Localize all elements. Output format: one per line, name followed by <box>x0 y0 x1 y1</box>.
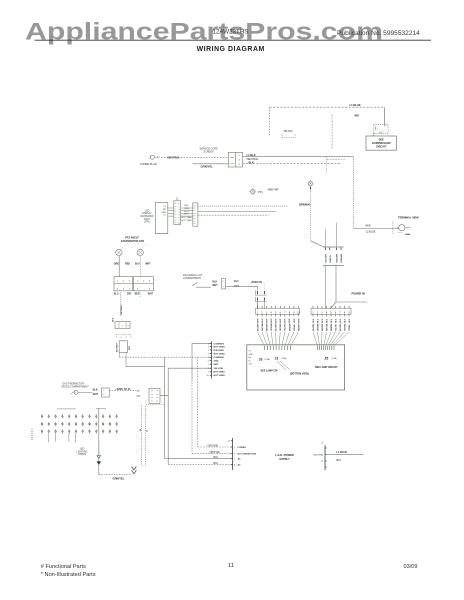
wire fan1 drop <box>118 256 120 277</box>
svg-text:1: 1 <box>208 343 209 345</box>
svg-text:11: 11 <box>228 563 234 569</box>
svg-text:VIO/BK: VIO/BK <box>349 324 351 331</box>
svg-text:GND: GND <box>214 361 219 363</box>
bracket dashed <box>117 334 131 339</box>
svg-text:KEYBOARD: KEYBOARD <box>141 215 154 218</box>
svg-text:+5VDC IN: +5VDC IN <box>250 281 262 284</box>
label NEUTRAL <box>247 157 260 161</box>
label GRN-YEL ground2 <box>113 477 125 481</box>
label +5VDC IN <box>250 281 262 284</box>
svg-text:RED: RED <box>129 345 131 350</box>
svg-text:BRN/BK: BRN/BK <box>331 323 333 331</box>
svg-text:BLU/BK: BLU/BK <box>340 323 342 331</box>
svg-text:3: 3 <box>178 209 179 211</box>
wire J4 drop 1 <box>141 406 143 466</box>
svg-text:EVAPORATOR FAN: EVAPORATOR FAN <box>121 240 144 243</box>
svg-text:6: 6 <box>129 288 131 290</box>
svg-text:(15A): (15A) <box>332 357 338 360</box>
fan motor M2 <box>137 249 143 255</box>
svg-text:BLK/WHT: BLK/WHT <box>117 342 119 352</box>
fan connector CN-B <box>133 277 153 291</box>
svg-text:A3: A3 <box>238 463 242 466</box>
footer non-illustrated parts <box>41 572 96 578</box>
label J3 <box>259 357 271 361</box>
LED supply input connector <box>228 438 236 470</box>
wire neutral dashed to right <box>243 163 341 165</box>
wire compressor return dashed <box>331 115 333 150</box>
svg-text:L1 BLUE: L1 BLUE <box>350 103 361 107</box>
svg-text:# Functional Parts: # Functional Parts <box>41 564 86 570</box>
svg-text:BLK: BLK <box>214 462 219 465</box>
svg-text:BLK: BLK <box>249 161 254 165</box>
connector CN-C <box>113 317 131 328</box>
svg-text:BLU: BLU <box>214 456 219 459</box>
svg-text:LED: LED <box>80 449 85 451</box>
svg-text:BLU: BLU <box>135 263 140 266</box>
svg-text:NOT USED: NOT USED <box>214 372 226 374</box>
svg-text:J2: J2 <box>176 199 179 201</box>
svg-text:WHT: WHT <box>294 318 296 323</box>
svg-text:1: 1 <box>122 326 124 328</box>
led supply pin functions <box>238 447 257 466</box>
svg-text:3: 3 <box>208 350 209 352</box>
svg-text:WHT: WHT <box>148 293 154 295</box>
wire J4 to blk riser <box>160 394 168 396</box>
svg-text:L.E.D. POWER: L.E.D. POWER <box>275 453 294 457</box>
board left tiny rows <box>248 351 253 366</box>
overload relay OL connector <box>374 124 388 133</box>
LED strip grid right <box>82 414 118 433</box>
svg-text:BAL: BAL <box>137 394 142 397</box>
wire to defrost thermostat <box>353 228 398 230</box>
svg-text:VL: VL <box>163 215 166 217</box>
label L1 BLUE out <box>337 451 348 454</box>
svg-text:NOT USED: NOT USED <box>214 346 226 348</box>
fan defrost connector 4pin <box>323 247 344 266</box>
svg-text:BLU/WH: BLU/WH <box>276 323 278 331</box>
LCD display box U1 <box>155 203 168 234</box>
svg-text:GRN/YEL: GRN/YEL <box>201 165 214 169</box>
svg-text:RED/BK: RED/BK <box>322 323 324 331</box>
left edge marks <box>31 429 33 440</box>
svg-text:NOT USED: NOT USED <box>214 353 226 355</box>
wire L1 top horizontal <box>270 106 385 108</box>
svg-text:1: 1 <box>178 204 179 206</box>
svg-text:3: 3 <box>239 164 241 166</box>
title WIRING DIAGRAM <box>197 46 265 53</box>
wire L1 from box to right riser <box>243 156 354 158</box>
label GRN-YEL ground <box>201 165 214 169</box>
svg-text:4: 4 <box>137 288 139 290</box>
label +5VDC <box>115 388 131 391</box>
svg-text:VIO/WH: VIO/WH <box>294 323 296 331</box>
svg-text:LIGHTING: LIGHTING <box>77 451 88 453</box>
wire box right to riser <box>126 353 165 367</box>
svg-text:VL: VL <box>248 360 251 362</box>
fan-in wires J1 <box>258 332 299 346</box>
wire led pwr pin4 <box>168 463 231 465</box>
wire solid mid <box>168 367 211 369</box>
svg-text:L2 BLUE: L2 BLUE <box>366 231 376 234</box>
svg-text:1: 1 <box>117 281 119 283</box>
led grid top rail <box>57 408 106 410</box>
led column stubs <box>49 434 76 443</box>
svg-text:(15A): (15A) <box>265 358 271 361</box>
svg-text:WHT: WHT <box>289 318 291 323</box>
svg-text:2: 2 <box>143 281 145 283</box>
ice 2pin connector bracket2 <box>255 297 266 302</box>
wire L1 drop to overload <box>384 107 386 124</box>
svg-text:BLU: BLU <box>114 293 119 295</box>
defrost thermostat DT <box>393 215 419 234</box>
main board box <box>247 345 345 390</box>
wire L1 riser left dashed <box>269 107 271 135</box>
wire led pwr pin2 <box>192 452 232 454</box>
fan-in wires J5 <box>313 332 349 346</box>
svg-text:BLK: BLK <box>212 281 217 283</box>
label lamp circuit <box>261 369 278 372</box>
svg-text:BLU: BLU <box>184 211 189 213</box>
svg-text:SEE LAMP CIR: SEE LAMP CIR <box>261 369 278 372</box>
svg-text:NO CONNECTION: NO CONNECTION <box>238 453 257 455</box>
wire ice +5vdc <box>226 285 258 287</box>
wire lamp diagonal to connector <box>311 241 324 247</box>
label LED LIGHTING STRIPS <box>77 449 88 457</box>
svg-text:WHT: WHT <box>271 318 273 323</box>
svg-text:GRY/WH: GRY/WH <box>280 323 282 331</box>
svg-text:BLK: BLK <box>335 318 337 323</box>
wire led strip ground riser <box>98 440 100 456</box>
svg-text:RED: RED <box>366 224 371 227</box>
svg-text:BLK: BLK <box>322 318 324 323</box>
wire plug to service cord box <box>161 156 228 158</box>
svg-text:GROUND: GROUND <box>208 444 219 447</box>
labels neutral l1 <box>313 454 324 463</box>
svg-text:TX: TX <box>163 206 166 208</box>
ice connector <box>222 279 226 289</box>
svg-text:GRN: GRN <box>184 208 189 210</box>
svg-text:1: 1 <box>121 337 123 339</box>
svg-text:RED: RED <box>184 205 189 207</box>
svg-text:BLK: BLK <box>349 318 351 323</box>
label bottom view <box>290 373 309 376</box>
svg-text:WHT: WHT <box>184 214 189 216</box>
labels red wht <box>234 281 240 288</box>
ribbon wire 2 <box>198 211 276 213</box>
publication number text <box>337 30 420 37</box>
svg-text:ORG/BK: ORG/BK <box>317 323 319 331</box>
svg-text:7: 7 <box>208 364 209 366</box>
svg-text:AppliancePartsPros.com: AppliancePartsPros.com <box>25 18 383 45</box>
label ICE MAKER <box>183 274 203 280</box>
plug P1 3-wire plug symbol <box>149 155 159 159</box>
label BRN-WH <box>299 204 310 207</box>
connector J2 label <box>176 199 179 201</box>
connector J2 box <box>174 201 181 225</box>
svg-text:J2: J2 <box>321 443 324 445</box>
svg-text:3: 3 <box>234 459 236 461</box>
label J5 <box>324 356 337 360</box>
svg-text:BLK/WH: BLK/WH <box>326 254 328 263</box>
svg-text:4: 4 <box>117 288 119 290</box>
svg-text:6: 6 <box>178 217 179 219</box>
LED strip grid left <box>41 414 77 433</box>
thermistor connector <box>101 388 109 397</box>
wire riser blk <box>167 368 169 464</box>
svg-text:COMMON: COMMON <box>214 357 225 359</box>
label L1 BLUE top <box>350 103 361 107</box>
svg-text:GRN/YL: GRN/YL <box>330 254 332 263</box>
wire riser blu <box>164 357 166 458</box>
svg-text:BLK: BLK <box>313 318 315 323</box>
label pin1 wire <box>208 444 219 447</box>
svg-text:1: 1 <box>239 155 241 157</box>
svg-text:WHT: WHT <box>298 318 300 323</box>
svg-text:WIRING DIAGRAM: WIRING DIAGRAM <box>197 46 265 53</box>
wire riser V1 <box>197 357 199 447</box>
label NEUTRAL at plug <box>168 155 181 159</box>
svg-text:3: 3 <box>129 281 131 283</box>
label J4 BAL <box>137 391 142 397</box>
svg-text:NEUTRAL: NEUTRAL <box>247 157 260 161</box>
wire L1 branch riser down <box>352 157 354 229</box>
svg-text:CIRCUIT: CIRCUIT <box>376 144 387 148</box>
svg-text:RED/WH: RED/WH <box>267 323 269 331</box>
label BLK <box>249 161 254 165</box>
led feed riser <box>98 409 100 456</box>
svg-text:WHT: WHT <box>214 364 220 366</box>
svg-text:J1: J1 <box>275 356 279 360</box>
svg-text:6: 6 <box>149 288 151 290</box>
svg-text:SUPPLY: SUPPLY <box>279 457 290 461</box>
svg-text:2: 2 <box>178 206 179 208</box>
svg-text:8: 8 <box>178 223 179 225</box>
svg-text:RX: RX <box>248 357 251 359</box>
svg-text:4: 4 <box>178 212 179 214</box>
connector strip J5 header <box>311 306 351 316</box>
label pin2 wire <box>210 451 221 454</box>
label GRY-BLU rotated <box>121 305 123 315</box>
svg-text:RED: RED <box>135 293 140 295</box>
svg-text:WH: WH <box>355 115 359 118</box>
svg-text:SEE: SEE <box>379 137 384 141</box>
bracket below J4 <box>146 401 164 405</box>
wires J2 to J3conn <box>181 208 193 216</box>
svg-text:TERMINAL VIEW: TERMINAL VIEW <box>398 215 419 219</box>
label BLK out <box>337 459 342 462</box>
svg-text:1: 1 <box>234 447 236 449</box>
svg-text:BLK: BLK <box>337 459 342 462</box>
svg-text:ORG: ORG <box>114 263 120 266</box>
svg-text:AMB TMP: AMB TMP <box>268 188 279 191</box>
label 3-WIRE PLUG <box>140 162 157 166</box>
svg-text:L1 BLK: L1 BLK <box>247 153 256 157</box>
svg-text:YEL/WH: YEL/WH <box>285 323 287 331</box>
label pin4 wire <box>214 462 219 465</box>
wire CN-B stub <box>139 292 141 298</box>
compressor circuit box <box>366 136 396 150</box>
svg-text:WHT/BK: WHT/BK <box>326 323 328 331</box>
ice 2pin connector bracket1 <box>255 290 266 295</box>
main board left connector pins <box>207 342 225 379</box>
LED supply output connector <box>321 443 326 471</box>
svg-text:COMPARTMENT: COMPARTMENT <box>183 277 201 280</box>
svg-text:(P/N): (P/N) <box>144 222 150 224</box>
svg-text:POWER IN: POWER IN <box>352 292 365 296</box>
date 03/09 <box>404 564 418 570</box>
svg-text:10: 10 <box>207 375 209 377</box>
page number 11 <box>228 563 234 569</box>
strip J5 wire labels <box>313 318 351 331</box>
svg-text:YELLOW: YELLOW <box>214 368 224 370</box>
svg-text:PTC: PTC <box>258 191 263 194</box>
svg-text:BLK: BLK <box>331 318 333 323</box>
labels below connectors <box>114 293 154 295</box>
connector box right of J2 <box>193 203 198 226</box>
wire colors labels <box>181 205 192 222</box>
svg-text:2: 2 <box>128 326 130 328</box>
wire lamp drop <box>310 189 312 241</box>
svg-text:GRY/BLU: GRY/BLU <box>121 305 123 315</box>
svg-text:YEL/BK: YEL/BK <box>335 323 337 331</box>
svg-text:10: 10 <box>297 313 300 315</box>
svg-text:NOT USED: NOT USED <box>214 375 226 377</box>
wire J4 drop 2 <box>145 406 147 466</box>
svg-text:8: 8 <box>208 368 209 370</box>
connector strip J1 header <box>256 306 301 316</box>
label J1 <box>275 356 287 360</box>
label FRZ SHELF EVAP FAN <box>121 237 144 243</box>
label see lamp circuit <box>315 366 338 369</box>
svg-text:DISPLAY: DISPLAY <box>142 212 152 215</box>
footer functional parts <box>41 564 86 570</box>
wire led pwr pin3 <box>165 458 232 460</box>
svg-text:NOT USED: NOT USED <box>181 220 192 222</box>
svg-text:GRY: GRY <box>127 293 132 295</box>
label pin3 wire <box>214 456 219 459</box>
tiny labels on drops <box>139 428 149 432</box>
svg-text:WHT: WHT <box>257 318 259 323</box>
wire fan2 drop <box>139 256 141 277</box>
svg-text:WHT: WHT <box>276 318 278 323</box>
svg-text:7: 7 <box>178 220 179 222</box>
watermark AppliancePartsPros.com <box>25 18 383 45</box>
svg-text:LCD: LCD <box>145 210 150 212</box>
label AMB TMP wire <box>366 224 376 233</box>
svg-text:BLK: BLK <box>317 318 319 323</box>
wire ground horizontal <box>99 465 132 475</box>
label WH <box>355 115 359 118</box>
wires LCD to J2 <box>168 208 174 216</box>
svg-text:SCREEN: SCREEN <box>204 151 214 154</box>
label GAS THERMISTOR <box>61 383 89 389</box>
svg-text:+5VDC TO J4: +5VDC TO J4 <box>115 388 131 391</box>
svg-text:3: 3 <box>149 281 151 283</box>
label LED POWER SUPPLY <box>275 453 294 461</box>
svg-text:GND: GND <box>161 212 166 214</box>
svg-text:4: 4 <box>234 464 236 466</box>
svg-text:WHT: WHT <box>285 318 287 323</box>
label SERVICE CORD text <box>200 148 218 154</box>
svg-text:WHT: WHT <box>212 285 218 287</box>
thermistor RT1 <box>71 390 79 394</box>
svg-text:TX: TX <box>248 351 251 353</box>
board top pins <box>265 346 334 350</box>
svg-text:6: 6 <box>208 361 209 363</box>
wires ice to strip <box>257 283 264 309</box>
svg-text:9: 9 <box>208 372 209 374</box>
ice maker component box <box>117 341 132 353</box>
svg-text:* Non-Illustrated Parts: * Non-Illustrated Parts <box>41 572 96 578</box>
svg-text:CROSS COMPARTMENT: CROSS COMPARTMENT <box>61 386 89 389</box>
svg-text:2: 2 <box>123 281 125 283</box>
svg-text:POWER: POWER <box>238 447 247 449</box>
svg-text:SEE LAMP CIRCUIT: SEE LAMP CIRCUIT <box>315 366 338 369</box>
wire thermistor <box>78 392 92 394</box>
svg-text:L1: L1 <box>321 461 324 463</box>
svg-text:J1: J1 <box>228 441 231 443</box>
connector J4 box <box>149 389 160 404</box>
svg-text:ICE MAKER / AUX: ICE MAKER / AUX <box>183 274 203 277</box>
svg-text:TAN/WH: TAN/WH <box>297 323 300 331</box>
svg-text:RED: RED <box>125 263 130 266</box>
wire riser V2 <box>191 343 193 453</box>
svg-text:NEUTRAL: NEUTRAL <box>313 454 324 457</box>
svg-text:5: 5 <box>208 357 209 359</box>
wire common top <box>192 342 212 344</box>
svg-text:3-WIRE PLUG: 3-WIRE PLUG <box>140 162 157 166</box>
wire box to board dashed <box>119 353 211 358</box>
svg-text:COMPRESSOR: COMPRESSOR <box>372 141 391 145</box>
fuse symbol <box>97 456 100 465</box>
svg-text:2: 2 <box>126 337 128 339</box>
lamp L2 symbol <box>308 180 312 189</box>
svg-text:12AW23THS: 12AW23THS <box>213 29 249 36</box>
ribbon wire 1 <box>198 205 287 207</box>
svg-text:STRIPS: STRIPS <box>78 454 87 456</box>
labels fan wires <box>114 263 151 266</box>
svg-text:BLK: BLK <box>326 318 328 323</box>
svg-text:WHT: WHT <box>93 394 99 396</box>
svg-text:BLK/BK: BLK/BK <box>313 323 315 331</box>
wires 4pin to stripB <box>326 266 337 310</box>
svg-text:BRN/WH: BRN/WH <box>299 204 309 207</box>
label L1 BLK <box>247 153 256 157</box>
svg-text:DISCONN: DISCONN <box>214 350 225 352</box>
svg-text:RED/WH: RED/WH <box>337 254 339 263</box>
wire junction riser A upper <box>326 157 328 173</box>
fan motor M1 <box>116 249 122 255</box>
wire led pwr pin1 <box>198 446 232 448</box>
svg-text:B: B <box>146 430 148 432</box>
svg-text:03/09: 03/09 <box>404 564 418 570</box>
service cord junction box J-BOX <box>228 152 242 167</box>
label POWER IN <box>352 292 365 296</box>
switch SW1 <box>193 282 211 287</box>
svg-text:5: 5 <box>178 215 179 217</box>
svg-text:WHT: WHT <box>280 318 282 323</box>
svg-text:WHT: WHT <box>145 263 151 266</box>
svg-text:2: 2 <box>234 453 236 455</box>
svg-text:BLK: BLK <box>113 317 115 322</box>
svg-text:WHT: WHT <box>267 318 269 323</box>
svg-text:COMMON: COMMON <box>214 343 225 345</box>
hatch dashes <box>122 244 148 248</box>
wire +5vdc dashed <box>109 390 139 392</box>
header rule <box>35 39 432 41</box>
svg-text:ASSY: ASSY <box>144 218 151 221</box>
wire overload to compressor box <box>373 133 375 136</box>
